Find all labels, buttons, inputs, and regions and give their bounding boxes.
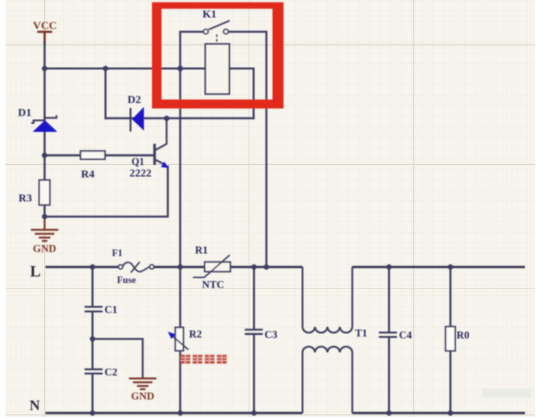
wire GND stem: [44, 217, 46, 230]
svg-text:K1: K1: [203, 9, 217, 21]
thermistor R1: [193, 255, 230, 277]
svg-text:GND: GND: [33, 244, 57, 255]
wire collector riser: [156, 118, 166, 149]
svg-text:Q1: Q1: [132, 157, 145, 168]
diode D2: [131, 107, 144, 132]
svg-text:T1: T1: [355, 329, 367, 340]
svg-text:N: N: [30, 398, 41, 414]
transformer T1 primary winding: [303, 267, 353, 333]
svg-text:2222: 2222: [130, 168, 153, 180]
wire D2 line: [106, 117, 254, 119]
wire N line right: [352, 412, 525, 414]
svg-text:C3: C3: [265, 330, 278, 341]
svg-text:D1: D1: [18, 107, 31, 119]
svg-text:C1: C1: [105, 305, 118, 316]
wire L line right: [352, 266, 525, 268]
svg-text:R3: R3: [19, 193, 33, 205]
svg-text:R1: R1: [195, 246, 208, 257]
transistor Q1: [155, 144, 169, 168]
R2 chinese label (varistor): [181, 355, 227, 364]
resistor R0: [446, 267, 456, 413]
wire relay contact right drop: [228, 32, 266, 267]
wire R3 branch: [44, 155, 46, 216]
red highlight box around K1: [152, 2, 284, 108]
svg-text:C4: C4: [399, 331, 413, 342]
svg-text:VCC: VCC: [33, 20, 57, 32]
varistor R2: [168, 267, 189, 413]
svg-text:GND: GND: [131, 392, 155, 403]
fuse F1: [119, 262, 154, 273]
resistor R3: [39, 180, 50, 205]
wire D1 branch: [44, 69, 46, 156]
wire L line left: [46, 266, 119, 268]
svg-text:L: L: [30, 264, 41, 281]
relay K1 contact: [204, 21, 230, 44]
svg-text:Fuse: Fuse: [117, 276, 136, 286]
ground symbol GND2: [130, 378, 156, 389]
wire coil right link: [229, 69, 253, 119]
capacitor C3: [245, 267, 263, 413]
wire VCC rail to relay coil: [45, 68, 206, 70]
wire N line left: [46, 412, 303, 414]
svg-text:R2: R2: [189, 330, 202, 341]
capacitor C4: [379, 267, 397, 413]
wire VCC stem: [44, 42, 46, 69]
wire base from node to Q1: [45, 154, 154, 156]
svg-text:R4: R4: [81, 169, 95, 181]
svg-text:D2: D2: [128, 94, 142, 106]
capacitor C2: [85, 339, 103, 413]
capacitor C1: [85, 267, 103, 339]
wire emitter return: [45, 167, 168, 217]
wire D2 riser: [105, 69, 107, 119]
svg-text:NTC: NTC: [202, 280, 224, 291]
svg-text:C2: C2: [105, 368, 118, 379]
wire relay contact left drop: [180, 32, 203, 267]
power symbol VCC: [38, 32, 51, 44]
wire L line mid: [154, 266, 303, 268]
svg-text:F1: F1: [112, 249, 123, 259]
ground symbol GND1: [32, 230, 58, 241]
resistor R4: [81, 151, 106, 159]
relay K1 coil: [205, 44, 229, 94]
transformer T1 secondary winding: [303, 347, 353, 413]
watermark box bottom right: [482, 389, 532, 398]
wire mid node to GND2: [93, 339, 143, 378]
zener diode D1: [31, 115, 57, 132]
svg-text:R0: R0: [457, 331, 470, 342]
